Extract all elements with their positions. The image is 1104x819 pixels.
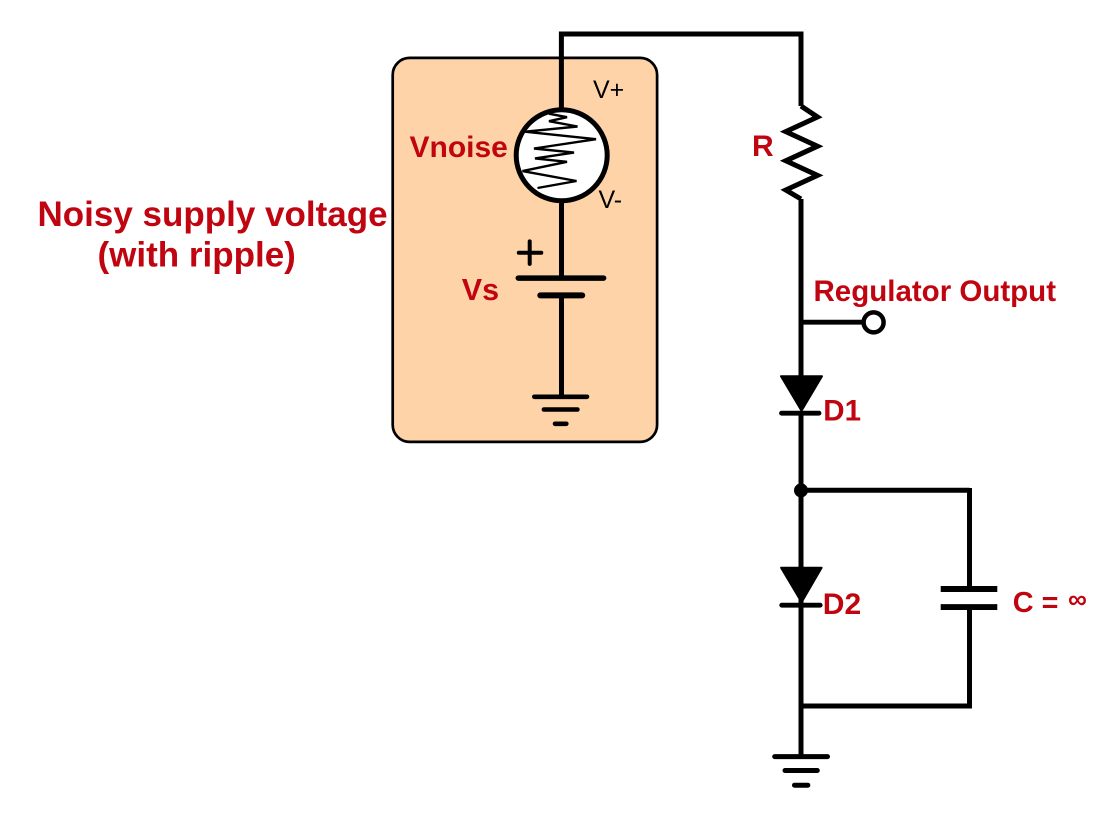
wire: capacitor bottom lead and bottom return — [801, 608, 970, 706]
svg-text:Vnoise: Vnoise — [410, 131, 508, 164]
capacitor C top plate — [941, 586, 998, 592]
label: Vnoise — [410, 131, 508, 164]
svg-text:V-: V- — [599, 186, 623, 214]
label: D2 — [823, 588, 861, 621]
diode D1 triangle — [781, 376, 822, 411]
battery Vs short plate — [540, 292, 582, 298]
diode D2 triangle — [781, 568, 822, 603]
wire: battery to ground — [559, 295, 564, 394]
wire: D1 to node — [799, 413, 804, 490]
svg-text:D2: D2 — [823, 588, 861, 621]
wire stub: regulator output — [801, 320, 864, 325]
svg-text:R: R — [752, 130, 774, 163]
label: C = infinity — [1013, 584, 1087, 619]
resistor R zigzag — [786, 106, 818, 199]
wire: Vnoise bottom to battery — [559, 200, 564, 278]
label: Regulator Output — [814, 275, 1057, 308]
label: V- — [599, 186, 623, 214]
svg-text:C =: C = — [1013, 587, 1059, 619]
node junction dot — [794, 483, 808, 497]
svg-text:Regulator Output: Regulator Output — [814, 275, 1057, 308]
terminal: regulator output open circle — [864, 312, 884, 332]
ground (inside box) — [534, 397, 587, 424]
noise squiggle inside Vnoise — [523, 114, 597, 188]
capacitor C bottom plate — [941, 604, 998, 610]
label: V+ — [593, 76, 624, 104]
wire top: V+ node to resistor top — [561, 34, 801, 110]
svg-text:∞: ∞ — [1068, 584, 1087, 614]
wire: resistor to diode D1 — [799, 199, 804, 377]
ground (bottom right) — [775, 757, 828, 786]
battery Vs plus sign — [519, 241, 542, 264]
wire: capacitor top lead — [967, 488, 972, 587]
svg-text:(with ripple): (with ripple) — [98, 236, 296, 275]
svg-text:Noisy supply voltage: Noisy supply voltage — [38, 195, 388, 234]
battery Vs long plate — [518, 275, 603, 281]
svg-text:D1: D1 — [823, 394, 861, 427]
source Vnoise circle — [516, 110, 607, 201]
svg-text:Vs: Vs — [462, 273, 499, 307]
diode D2 cathode bar — [782, 603, 821, 608]
label: Noisy supply voltage (line 1) — [38, 195, 388, 234]
label: D1 — [823, 394, 861, 427]
label: (with ripple) (line 2) — [98, 236, 296, 275]
wire: node through D2 to ground — [799, 490, 804, 756]
noisy-source enclosure box — [393, 58, 657, 442]
wire: node to capacitor branch (top) — [801, 488, 970, 493]
label: R — [752, 130, 774, 163]
svg-text:V+: V+ — [593, 76, 624, 104]
label: Vs — [462, 273, 499, 307]
diode D1 cathode bar — [782, 411, 820, 416]
